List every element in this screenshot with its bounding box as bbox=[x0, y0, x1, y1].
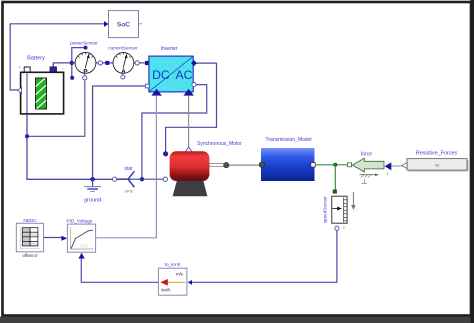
svg-text:NEDC: NEDC bbox=[23, 218, 37, 223]
force bbox=[348, 151, 392, 183]
svg-text:A: A bbox=[121, 68, 126, 75]
NEDC table block bbox=[16, 218, 43, 258]
wire PID output to inverter control input bbox=[96, 96, 157, 238]
svg-text:-: - bbox=[62, 66, 64, 71]
node green junction bbox=[333, 163, 337, 167]
wire battery minus down to ground line bbox=[27, 73, 114, 180]
node star junction bbox=[140, 177, 144, 181]
inverter U1 DC/AC bbox=[145, 46, 197, 95]
svg-text:currentSensor: currentSensor bbox=[108, 45, 138, 50]
wire force to resistive forces bbox=[391, 165, 401, 167]
svg-text:AC: AC bbox=[176, 68, 193, 82]
wire inverter DC minus to ground bbox=[93, 86, 146, 179]
ground bbox=[84, 179, 101, 203]
svg-text:P: P bbox=[83, 68, 88, 75]
node J1 bbox=[70, 61, 74, 65]
svg-text:PID_Voltage: PID_Voltage bbox=[66, 218, 92, 223]
svg-text:force: force bbox=[361, 151, 372, 157]
svg-text:Synchronous_Motor: Synchronous_Motor bbox=[197, 141, 242, 147]
svg-text:star: star bbox=[124, 166, 133, 172]
node battery minus junction bbox=[25, 134, 29, 138]
svg-text:f: f bbox=[387, 172, 389, 176]
powerSensor bbox=[70, 41, 109, 80]
transmission Transmission_Model bbox=[259, 137, 315, 181]
wire battery SoC output to SoC block bbox=[10, 21, 108, 90]
svg-text:Battery: Battery bbox=[27, 56, 45, 62]
svg-text:speedSensor: speedSensor bbox=[323, 196, 328, 224]
to_kmh unit conversion block bbox=[158, 262, 192, 295]
wire speedSensor to to_kmh bbox=[192, 231, 337, 283]
svg-text:+: + bbox=[18, 66, 20, 70]
wire inverter AC plus to motor plug bbox=[166, 63, 217, 152]
svg-text:km/h: km/h bbox=[161, 287, 171, 292]
resistive forces block bbox=[402, 151, 469, 172]
SoC block U_SoC bbox=[109, 11, 143, 38]
svg-text:Resistive_Forces: Resistive_Forces bbox=[416, 151, 458, 157]
svg-text:DC: DC bbox=[152, 68, 170, 82]
wire J1 to powerSensor bbox=[72, 62, 76, 64]
svg-text:powerSensor: powerSensor bbox=[70, 41, 98, 46]
svg-text:m=3: m=3 bbox=[125, 188, 134, 193]
wire green junction to speedSensor bbox=[334, 165, 336, 190]
wire battery plus to node J1 bbox=[53, 63, 72, 67]
svg-text:v: v bbox=[343, 226, 345, 230]
wire inverter to motor control (gray) bbox=[188, 96, 190, 148]
motor Synchronous_Motor bbox=[163, 141, 242, 197]
wire inverter AC minus to motor lower plug bbox=[142, 85, 207, 180]
svg-text:Inverter: Inverter bbox=[161, 46, 178, 52]
wire powerSensor voltage loop bbox=[72, 48, 86, 78]
wire powerSensor to currentSensor bbox=[96, 62, 114, 64]
star bbox=[113, 166, 142, 194]
wire NEDC to PID bbox=[44, 236, 68, 241]
node ground junction bbox=[90, 177, 95, 182]
wire powerSensor nv to battery minus line bbox=[28, 80, 85, 137]
wire currentSensor to inverter bbox=[134, 62, 147, 64]
wire motor shaft to transmission bbox=[229, 164, 261, 166]
svg-text:m/s: m/s bbox=[176, 271, 183, 276]
svg-text:ground: ground bbox=[84, 198, 101, 204]
battery Battery bbox=[17, 56, 63, 114]
speedSensor bbox=[323, 190, 348, 231]
gray reference arrow bbox=[351, 192, 355, 210]
svg-text:fd: fd bbox=[435, 163, 438, 168]
currentSensor bbox=[108, 45, 139, 79]
svg-text:Transmission_Model: Transmission_Model bbox=[266, 137, 312, 143]
svg-text:to_kmh: to_kmh bbox=[165, 262, 181, 268]
wire transmission to force (green) bbox=[315, 164, 347, 166]
wire to_kmh to PID feedback bbox=[81, 259, 158, 283]
PID_Voltage controller block bbox=[66, 218, 95, 258]
svg-text:offset=0: offset=0 bbox=[23, 253, 39, 258]
svg-text:SoC: SoC bbox=[117, 21, 130, 28]
